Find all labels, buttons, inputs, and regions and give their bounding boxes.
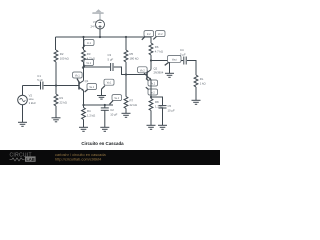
svg-text:C2: C2 — [110, 108, 114, 112]
capacitor C3 — [108, 53, 114, 71]
footer bar — [0, 150, 220, 165]
svg-text:Vout: Vout — [172, 58, 177, 61]
resistor R4 — [82, 105, 96, 120]
flag Ve.1 — [85, 84, 97, 93]
svg-text:Vc.2: Vc.2 — [158, 34, 163, 36]
resistor R8 — [149, 99, 163, 111]
node V1-rail — [99, 36, 101, 38]
svg-text:R7: R7 — [130, 99, 134, 103]
svg-text:RL: RL — [200, 77, 204, 81]
capacitor C4 — [180, 48, 186, 65]
flag Vb.2 — [138, 67, 148, 76]
svg-text:10 µF: 10 µF — [168, 108, 175, 112]
wire R6 to collector2 — [150, 55, 152, 70]
svg-text:180 kΩ: 180 kΩ — [130, 56, 139, 60]
resistor R2 — [54, 50, 69, 62]
svg-text:R3: R3 — [87, 52, 91, 56]
flag Ic.1 — [82, 40, 94, 49]
node emitter2 — [150, 96, 152, 98]
wire V2 to ground — [22, 105, 24, 122]
ground C2 — [100, 127, 109, 131]
ground C5 — [158, 125, 167, 129]
svg-text:5 µF: 5 µF — [180, 52, 186, 56]
resistor R3 — [82, 50, 95, 62]
svg-text:Vc.1: Vc.1 — [86, 63, 91, 65]
VCC supply symbol — [92, 9, 104, 20]
svg-text:1 kHz: 1 kHz — [29, 101, 37, 105]
wire rail left drop — [55, 37, 57, 50]
node base2 — [125, 73, 127, 75]
wire R1 to ground — [55, 106, 57, 118]
wire rail to R3 — [83, 37, 85, 50]
wire emitter node right — [84, 104, 114, 106]
svg-text:R5: R5 — [130, 52, 134, 56]
wire output — [151, 60, 183, 62]
svg-text:LAB: LAB — [26, 157, 35, 162]
svg-text:carloshr / circuito en cascada: carloshr / circuito en cascada — [55, 153, 107, 157]
svg-text:C3: C3 — [108, 53, 112, 57]
wire emitter1 down — [83, 91, 85, 106]
svg-text:10 µF: 10 µF — [110, 112, 117, 116]
svg-text:24 V: 24 V — [91, 25, 97, 29]
node rail R3 — [82, 36, 84, 38]
capacitor C1 — [37, 74, 43, 90]
node base1 — [55, 84, 57, 86]
svg-text:Ve.1: Ve.1 — [114, 98, 119, 100]
flag Vc.1 — [82, 60, 93, 69]
svg-text:C5: C5 — [168, 104, 172, 108]
footer credit — [55, 153, 107, 162]
ground R8 — [147, 125, 156, 129]
resistor R6 — [149, 43, 163, 55]
wire C2 to ground — [104, 111, 106, 128]
node emitter1 — [82, 104, 84, 106]
wire RL to ground — [195, 87, 197, 100]
voltage source V1 — [91, 20, 105, 29]
svg-text:5 µF: 5 µF — [108, 58, 114, 62]
wire emitter2 down — [150, 80, 152, 99]
svg-text:R2: R2 — [60, 52, 64, 56]
ground R1 — [52, 118, 61, 122]
wire V1 to rail — [99, 29, 101, 37]
svg-text:C4: C4 — [180, 48, 184, 52]
wire collector1 to C3 — [84, 66, 111, 68]
wire R5 to base node2 — [125, 62, 127, 97]
flag Vout — [165, 56, 181, 66]
resistor R5 — [124, 50, 138, 62]
wire top rail — [56, 36, 152, 38]
CircuitLab logo — [10, 153, 36, 162]
svg-text:R6: R6 — [155, 45, 159, 49]
svg-text:Q2: Q2 — [154, 66, 158, 70]
wire C5 to ground — [162, 108, 164, 125]
wire C1 to base Q1 — [44, 85, 79, 87]
node rail R5 — [125, 36, 127, 38]
svg-text:Vb.1: Vb.1 — [75, 76, 80, 78]
node C2 — [104, 104, 106, 106]
wire R8 to ground — [150, 111, 152, 126]
resistor RL — [194, 75, 206, 87]
wire rail to R5 — [125, 37, 127, 50]
svg-text:5 µF: 5 µF — [37, 78, 43, 82]
flag Ie.2 — [146, 87, 158, 95]
resistor R7 — [124, 97, 137, 109]
svg-text:100 kΩ: 100 kΩ — [60, 56, 69, 60]
flag Ve.1b — [110, 95, 122, 105]
svg-text:Circuito en Cascada: Circuito en Cascada — [81, 141, 124, 146]
transistor Q1 — [79, 79, 89, 91]
ground output — [165, 73, 174, 77]
wire R3 to collector — [83, 62, 85, 81]
svg-text:Ve.1: Ve.1 — [89, 87, 94, 89]
wire C4 to RL — [187, 61, 196, 76]
svg-text:http://circuitlab.com/c96kt4: http://circuitlab.com/c96kt4 — [55, 158, 101, 162]
flag Vo.1 with ground — [102, 79, 115, 95]
wire R2 to base node — [55, 62, 57, 94]
wire stub to ground — [169, 61, 171, 74]
resistor R1 — [54, 94, 67, 106]
capacitor C5 — [159, 104, 175, 112]
wire R7 to ground — [125, 109, 127, 114]
node collector1 — [82, 66, 84, 68]
wire rail right drop — [150, 37, 152, 43]
flag Vb.1 — [73, 72, 83, 84]
svg-text:22 kΩ: 22 kΩ — [130, 103, 137, 107]
source V2 sine — [18, 86, 37, 106]
ground V2 — [18, 122, 27, 126]
svg-text:R1: R1 — [60, 96, 64, 100]
ground flag — [97, 96, 106, 100]
node collector2 — [150, 59, 152, 61]
wire C3 to base2 — [114, 67, 147, 75]
wire input — [23, 85, 40, 87]
ground RL — [192, 100, 201, 104]
ground R7 — [122, 113, 131, 117]
svg-text:R8: R8 — [155, 100, 159, 104]
capacitor C2 — [101, 105, 118, 116]
flag Ic.2 — [142, 31, 154, 40]
svg-text:Q1: Q1 — [85, 79, 89, 83]
flag Ve.2 — [146, 79, 158, 87]
svg-text:Vo.1: Vo.1 — [107, 83, 112, 85]
svg-text:R4: R4 — [87, 109, 91, 113]
wire R4 to ground — [83, 120, 85, 128]
ground R4 — [79, 127, 88, 131]
wire emitter2 to C5 — [151, 97, 163, 105]
svg-text:1.2 kΩ: 1.2 kΩ — [87, 113, 95, 117]
transistor Q2 — [147, 66, 164, 79]
svg-text:22 kΩ: 22 kΩ — [60, 100, 67, 104]
flag Vc.2 — [153, 31, 165, 40]
svg-text:1 kΩ: 1 kΩ — [200, 81, 206, 85]
svg-text:2N3904: 2N3904 — [154, 71, 164, 75]
svg-text:Vb.2: Vb.2 — [140, 70, 145, 72]
svg-text:4.7 kΩ: 4.7 kΩ — [155, 49, 163, 53]
